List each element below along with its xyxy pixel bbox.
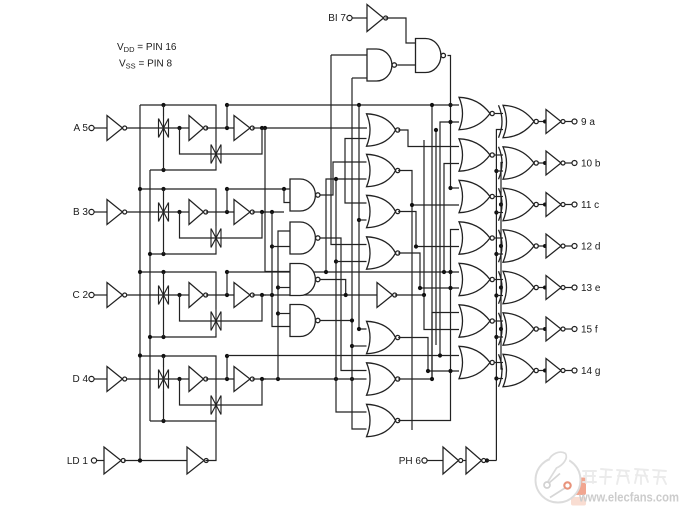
- wire C row to mid inverter: [264, 294, 377, 296]
- wire phase stub g: [496, 378, 503, 380]
- junction clock line B top: [138, 187, 142, 191]
- wire A terminal to inverter: [94, 127, 107, 129]
- junction clock-bar C bottom: [148, 335, 152, 339]
- junction B rail corner: [225, 187, 229, 191]
- wire B TG1 to node: [180, 211, 190, 213]
- wire output e to terminal: [565, 287, 572, 289]
- xnor gate X-a: [499, 105, 539, 137]
- nor gate M2: [367, 154, 400, 186]
- svg-text:C 2: C 2: [72, 290, 88, 301]
- junction D TG1 top control: [161, 354, 165, 358]
- wire X-c to output inverter: [538, 204, 545, 206]
- junction phase stub f: [494, 335, 498, 339]
- svg-text:11 c: 11 c: [581, 200, 599, 211]
- wire output d to terminal: [565, 245, 572, 247]
- wire phase stub c: [496, 212, 503, 214]
- nor gate P-f: [459, 305, 494, 337]
- junction v501 stub f: [499, 327, 503, 331]
- wire C latch clock bottom: [150, 333, 216, 337]
- wire B TG1 bottom stub: [163, 224, 165, 254]
- junction clock line LD row: [138, 458, 142, 462]
- junction v272 N2 stub: [270, 244, 274, 248]
- wire X-f to output inverter: [538, 328, 545, 330]
- wire phase stub e: [496, 295, 503, 297]
- transmission gate D TG1: [159, 367, 169, 391]
- svg-text:PH 6: PH 6: [399, 456, 422, 467]
- transmission gate A TG1: [159, 116, 169, 140]
- junction phase stub d: [494, 252, 498, 256]
- junction N4 out at v352: [350, 318, 354, 322]
- junction C rail corner: [225, 270, 229, 274]
- transmission gate B TG2 feedback: [211, 226, 221, 250]
- wire C feedback right: [223, 295, 263, 321]
- junction A rail tap v359: [357, 103, 361, 107]
- junction v432 tap: [430, 377, 434, 381]
- wire C stage1 to stage2: [206, 294, 234, 296]
- wire channel v336: [336, 179, 367, 412]
- svg-text:10 b: 10 b: [581, 158, 601, 169]
- junction LD to clock line: [138, 458, 142, 462]
- wire A TG1 top stub: [163, 105, 165, 116]
- wire A latch clock top: [140, 105, 216, 142]
- junction v428 tap: [426, 369, 430, 373]
- nand gate N1: [290, 179, 320, 211]
- wire channel v265: [265, 128, 290, 272]
- svg-text:BI 7: BI 7: [328, 13, 346, 24]
- junction D latch input node: [177, 377, 181, 381]
- junction v336 M4 stub: [334, 259, 338, 263]
- wire channel v272: [272, 212, 290, 327]
- inverter BI: [367, 5, 388, 32]
- wire B row to channel: [264, 211, 284, 213]
- junction clock line D top: [138, 353, 142, 357]
- inverter D input: [107, 367, 127, 392]
- wire channel v440: [440, 122, 459, 356]
- wire C terminal to inverter: [94, 294, 107, 296]
- nand gate N4: [290, 305, 320, 337]
- xnor gate X-f: [499, 313, 539, 345]
- wire output f to terminal: [565, 328, 572, 330]
- junction B rail tap: [282, 187, 286, 191]
- wire channel v345: [345, 139, 367, 204]
- wire A latch clock bottom: [150, 166, 216, 170]
- wire channel v326: [326, 179, 367, 272]
- wire PH inv1 to inv2: [463, 460, 466, 462]
- terminal input BI: [347, 15, 352, 20]
- svg-text:www.elecfans.com: www.elecfans.com: [578, 490, 679, 505]
- wire X-g to output inverter: [538, 370, 545, 372]
- wire P-f out to X-f: [495, 320, 503, 322]
- watermark salmon square: [575, 478, 586, 496]
- wire mid inverter out: [395, 294, 424, 296]
- wire output c to terminal: [565, 204, 572, 206]
- wire B rail riser: [226, 189, 228, 212]
- inverter output b: [543, 151, 565, 175]
- junction B feedback node: [260, 210, 264, 214]
- wire P-b out to X-b: [495, 154, 503, 156]
- wire channel v501: [501, 163, 503, 370]
- wire PH terminal to inverter: [427, 460, 443, 462]
- watermark logo circle: [536, 449, 581, 503]
- wire U2 output down: [448, 56, 451, 189]
- inverter PH first: [443, 447, 463, 474]
- wire D-bar rail: [227, 355, 459, 357]
- junction phase stub e: [494, 293, 498, 297]
- terminal output f: [572, 327, 577, 332]
- junction A row tap v265: [263, 126, 267, 130]
- svg-text:D 4: D 4: [72, 374, 88, 385]
- terminal output g: [572, 368, 577, 373]
- inverter LD first: [104, 447, 125, 474]
- wire channel v284 B tap: [284, 189, 290, 203]
- junction A rail riser: [225, 126, 229, 130]
- terminal output c: [572, 202, 577, 207]
- wire output b to terminal: [565, 162, 572, 164]
- wire A-bar rail: [227, 104, 459, 106]
- junction v436 tap: [434, 128, 438, 132]
- inverter output g: [543, 359, 565, 383]
- wire P-c out to X-c: [495, 196, 503, 198]
- inverter output e: [543, 276, 565, 300]
- wire output a to terminal: [565, 121, 572, 123]
- junction v359 M5 stub: [357, 327, 361, 331]
- junction v501 stub d: [499, 244, 503, 248]
- wire C rail riser: [226, 272, 228, 295]
- junction v501 stub e: [499, 285, 503, 289]
- junction v444 at C rail: [442, 270, 446, 274]
- wire N2 lower input: [272, 246, 290, 248]
- wire D feedback right: [223, 379, 263, 405]
- wire U1 input upper: [331, 54, 367, 56]
- wire X-e to output inverter: [538, 287, 545, 289]
- junction blanking stub e: [448, 286, 452, 290]
- watermark salmon square light: [571, 497, 586, 506]
- wire U1 out to U2: [397, 64, 415, 66]
- junction C TG1 top control: [161, 270, 165, 274]
- wire A TG1 bottom stub: [163, 140, 165, 170]
- wire D rail riser: [226, 356, 228, 379]
- wire C stage2 output: [252, 294, 266, 296]
- wire C feedback left: [180, 295, 223, 321]
- junction phase stub g: [494, 376, 498, 380]
- junction blanking stub g: [448, 369, 452, 373]
- wire phase stub f: [496, 336, 503, 338]
- wire D TG1 to node: [180, 378, 190, 380]
- transmission gate C TG2 feedback: [211, 309, 221, 333]
- wire N1 output elbow to M2: [320, 162, 366, 195]
- wire N3 lower input: [278, 287, 290, 289]
- svg-text:A 5: A 5: [74, 123, 89, 134]
- wire PH out to riser: [486, 460, 496, 462]
- junction A rail corner: [225, 103, 229, 107]
- wire LD clock line vertical: [139, 105, 141, 461]
- wire LD inverter out: [124, 460, 187, 462]
- wire A feedback left: [180, 128, 223, 154]
- wire BI terminal to inverter: [352, 17, 367, 19]
- terminal input LD: [91, 458, 96, 463]
- wire phase stub b: [496, 170, 503, 172]
- xnor gate X-e: [499, 271, 539, 303]
- nor gate P-a: [459, 97, 494, 129]
- wire M4 output to col1: [398, 253, 459, 288]
- junction B rail riser: [225, 210, 229, 214]
- inverter output f: [543, 317, 565, 341]
- junction D rail corner: [225, 354, 229, 358]
- wire channel v359 A tap: [359, 105, 367, 329]
- wire mid inverter route: [424, 295, 459, 330]
- inverter PH second: [466, 447, 486, 474]
- wire output g to terminal: [565, 370, 572, 372]
- junction D row tap v278: [276, 377, 280, 381]
- inverter B latch stage 2: [234, 200, 254, 225]
- wire D stage1 to stage2: [206, 378, 234, 380]
- svg-text:B 3: B 3: [73, 207, 88, 218]
- xnor gate X-d: [499, 230, 539, 262]
- junction clock-bar B bottom: [148, 252, 152, 256]
- junction B TG1 top control: [161, 187, 165, 191]
- nand gate N3: [290, 264, 320, 296]
- wire A stage2 output: [252, 127, 266, 129]
- nor gate M4: [367, 237, 400, 269]
- wire BI inverter to NAND U2: [385, 18, 415, 43]
- wire C TG1 to node: [180, 294, 190, 296]
- junction A TG1 top control: [161, 103, 165, 107]
- inverter D latch stage 2: [234, 367, 254, 392]
- terminal input C: [89, 292, 94, 297]
- watermark chinese text strokes: [583, 469, 666, 484]
- junction D TG1 bottom control: [161, 419, 165, 423]
- inverter A input: [107, 116, 127, 141]
- svg-text:LD 1: LD 1: [67, 456, 89, 467]
- nor gate P-e: [459, 263, 494, 295]
- wire channel v352 U1 riser: [352, 78, 367, 429]
- wire LD terminal to inverter: [97, 460, 104, 462]
- xnor gate X-b: [499, 147, 539, 179]
- inverter C latch stage 2: [234, 283, 254, 308]
- wire v501 stub d: [501, 245, 503, 247]
- terminal output a: [572, 119, 577, 124]
- wire D TG1 top stub: [163, 356, 165, 367]
- wire B latch clock bottom: [150, 250, 216, 254]
- wire D terminal to inverter: [94, 378, 107, 380]
- wire A stage1 to stage2: [206, 127, 234, 129]
- junction C feedback node: [260, 293, 264, 297]
- junction C TG1 bottom control: [161, 335, 165, 339]
- junction D rail riser: [225, 377, 229, 381]
- inverter C input: [107, 283, 127, 308]
- wire P-g out to X-g: [495, 362, 503, 364]
- junction blanking stub b: [448, 120, 452, 124]
- junction PH output: [485, 458, 489, 462]
- xnor gate X-g: [499, 354, 539, 386]
- junction B row tap v272: [270, 210, 274, 214]
- wire P-a out to X-a: [495, 113, 503, 115]
- inverter output d: [543, 234, 565, 258]
- wire channel v278: [278, 231, 290, 379]
- nand U1 blanking: [367, 49, 396, 81]
- junction clock line C top: [138, 270, 142, 274]
- wire N4 upper input: [278, 313, 290, 315]
- junction v278 N3 stub: [276, 285, 280, 289]
- inverter B input: [107, 200, 127, 225]
- buffer A latch stage 1: [189, 116, 208, 141]
- wire channel v432 extension: [431, 105, 433, 379]
- nor gate M3: [367, 195, 400, 227]
- wire D stage2 output: [252, 378, 266, 380]
- junction v352 M5 stub: [350, 344, 354, 348]
- wire M5 lower input: [352, 345, 367, 347]
- junction A latch input node: [177, 126, 181, 130]
- wire channel v331 U1 riser: [331, 55, 367, 245]
- svg-text:9 a: 9 a: [581, 117, 595, 128]
- transmission gate A TG2 feedback: [211, 142, 221, 166]
- wire M5 output to col1: [398, 338, 459, 372]
- junction v412 tap: [410, 203, 414, 207]
- wire phase stub d: [496, 253, 503, 255]
- wire N4 output elbow: [320, 320, 352, 322]
- junction v416 tap: [414, 244, 418, 248]
- watermark logo trace: [544, 474, 571, 498]
- wire g3 top input stub: [451, 187, 460, 189]
- junction B TG1 bottom control: [161, 252, 165, 256]
- transmission gate C TG1: [159, 283, 169, 307]
- svg-text:13 e: 13 e: [581, 283, 601, 294]
- junction D row tap v336: [334, 377, 338, 381]
- nor gate P-g: [459, 346, 494, 378]
- nand U2 blanking: [416, 39, 446, 73]
- wire A row to nor M1: [264, 127, 367, 129]
- junction phase stub c: [494, 210, 498, 214]
- wire C latch clock top: [140, 272, 216, 309]
- nor gate P-d: [459, 222, 494, 254]
- terminal input A: [89, 125, 94, 130]
- wire P-d out to X-d: [495, 237, 503, 239]
- wire D feedback left: [180, 379, 223, 405]
- wire X-a to output inverter: [538, 121, 545, 123]
- junction v278 N4 stub: [276, 311, 280, 315]
- inverter LD second: [187, 447, 208, 474]
- wire channel v436 extension: [435, 130, 437, 345]
- wire B TG1 top stub: [163, 189, 165, 200]
- wire M1 output to col1: [398, 130, 459, 147]
- wire X-b to output inverter: [538, 162, 545, 164]
- junction blanking at g3 stub: [448, 186, 452, 190]
- svg-text:14 g: 14 g: [581, 366, 600, 377]
- wire M3 lower input: [359, 219, 367, 221]
- wire M3 output to col1: [398, 212, 459, 247]
- nor gate M1: [367, 114, 400, 146]
- wire D row to nor M6: [264, 378, 367, 380]
- junction C row tap v272: [270, 293, 274, 297]
- junction v424 tap: [422, 293, 426, 297]
- wire D latch clock bottom: [150, 417, 216, 421]
- junction blanking at A rail: [448, 103, 452, 107]
- wire B stage2 output: [252, 211, 266, 213]
- wire M4 lower input: [336, 261, 367, 263]
- junction v432 at A rail: [430, 103, 434, 107]
- transmission gate B TG1: [159, 200, 169, 224]
- terminal input D: [89, 376, 94, 381]
- inverter output a: [543, 110, 565, 134]
- junction blanking at C rail: [448, 270, 452, 274]
- wire B inverter to TG1: [127, 211, 179, 213]
- svg-text:15 f: 15 f: [581, 324, 598, 335]
- wire A rail riser: [226, 105, 228, 128]
- terminal output d: [572, 244, 577, 249]
- junction A feedback node: [260, 126, 264, 130]
- junction phase stub b: [494, 169, 498, 173]
- junction v501 stub c: [499, 202, 503, 206]
- buffer C latch stage 1: [189, 283, 208, 308]
- junction D feedback node: [260, 377, 264, 381]
- terminal output e: [572, 285, 577, 290]
- wire C TG1 top stub: [163, 272, 165, 283]
- svg-text:12 d: 12 d: [581, 241, 600, 252]
- transmission gate D TG2 feedback: [211, 393, 221, 417]
- junction v326 at C rail: [324, 270, 328, 274]
- nand gate N2: [290, 222, 320, 254]
- junction A TG1 bottom control: [161, 168, 165, 172]
- wire X-d to output inverter: [538, 245, 545, 247]
- wire LD-bar clock line vertical: [149, 170, 151, 421]
- wire D inverter to TG1: [127, 378, 179, 380]
- junction v359 M3 stub: [357, 218, 361, 222]
- wire C TG1 bottom stub: [163, 307, 165, 337]
- nor gate M7: [367, 404, 400, 436]
- wire A inverter to TG1: [127, 127, 179, 129]
- inverter A latch stage 2: [234, 116, 254, 141]
- junction D row tap v352: [350, 377, 354, 381]
- wire C inverter to TG1: [127, 294, 179, 296]
- wire B latch clock top: [140, 189, 216, 226]
- wire B-bar rail: [227, 188, 290, 190]
- nor gate M6: [367, 363, 400, 395]
- wire channel v412 extension: [411, 205, 413, 430]
- nor gate P-b: [459, 139, 494, 171]
- wire A TG1 to node: [180, 127, 190, 129]
- wire B terminal to inverter: [94, 211, 107, 213]
- nor gate P-c: [459, 180, 494, 212]
- inverter mid C: [377, 283, 397, 308]
- junction C rail riser: [225, 293, 229, 297]
- wire M7 output to col1: [398, 230, 459, 421]
- junction N3 out at C row: [344, 293, 348, 297]
- junction v336 M2 stub: [334, 177, 338, 181]
- xnor gate X-c: [499, 188, 539, 220]
- wire B stage1 to stage2: [206, 211, 234, 213]
- wire channel v444: [444, 164, 459, 273]
- wire U1 input lower: [352, 77, 367, 79]
- wire M2 output to col1: [398, 171, 459, 206]
- wire N3 output elbow: [320, 280, 346, 296]
- nor gate M5: [367, 321, 400, 353]
- terminal input B: [89, 209, 94, 214]
- wire v501 stub c: [501, 204, 503, 206]
- wire B feedback right: [223, 212, 263, 238]
- wire A feedback right: [223, 128, 263, 154]
- wire v501 stub e: [501, 287, 503, 289]
- terminal input PH: [422, 458, 427, 463]
- wire LD second out riser: [205, 421, 216, 461]
- buffer D latch stage 1: [189, 367, 208, 392]
- terminal output b: [572, 161, 577, 166]
- inverter output c: [543, 193, 565, 217]
- wire channel v424 extension: [423, 140, 425, 295]
- wire B feedback left: [180, 212, 223, 238]
- wire N2 output elbow to M6: [320, 238, 366, 371]
- wire PH phase line vertical: [496, 130, 503, 461]
- junction v420 tap: [418, 286, 422, 290]
